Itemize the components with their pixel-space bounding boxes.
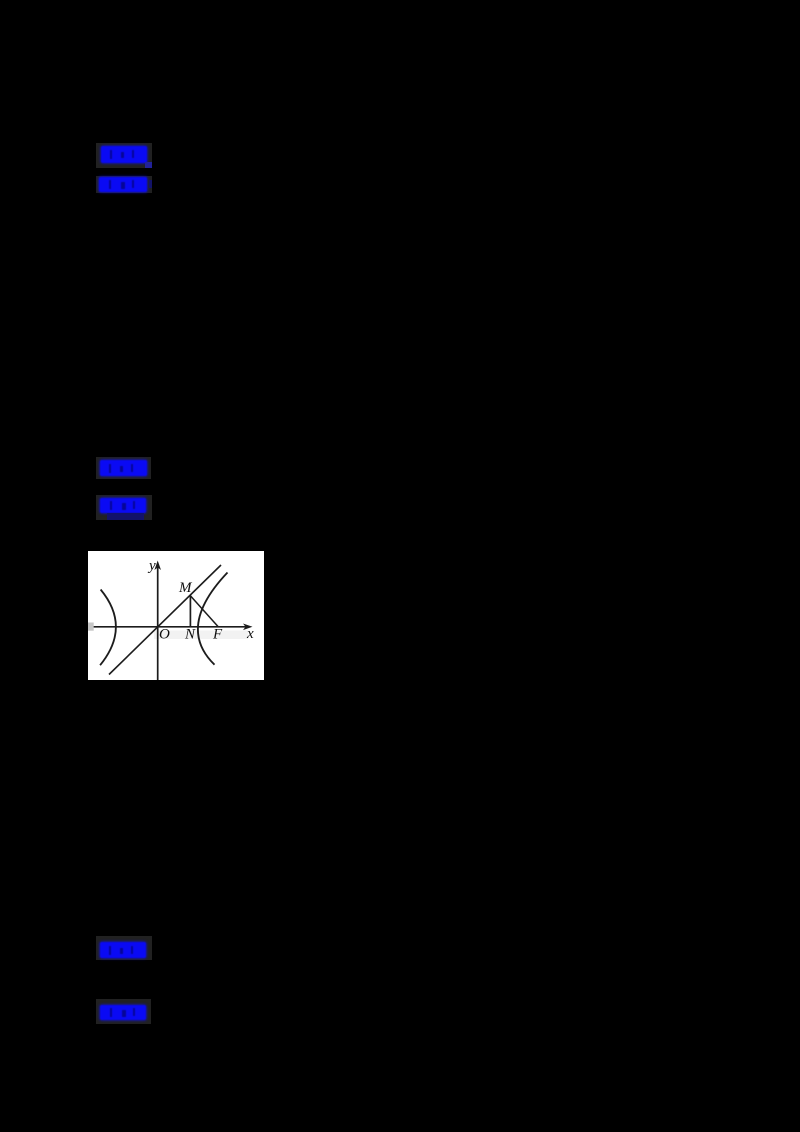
svg-text:F: F bbox=[212, 627, 223, 643]
hyperbola left branch bbox=[100, 590, 116, 666]
highlight label 1 selection box bbox=[96, 143, 152, 168]
y-axis arrowhead bbox=[154, 561, 161, 571]
highlight label 6 blue text bbox=[100, 1005, 146, 1020]
svg-text:x: x bbox=[246, 626, 254, 642]
x-axis arrowhead bbox=[243, 624, 253, 631]
segment M N bbox=[189, 596, 191, 627]
highlight label 5 selection box bbox=[96, 936, 152, 960]
y-axis bbox=[157, 565, 159, 680]
highlight label 1 subscript bbox=[145, 162, 152, 168]
svg-text:O: O bbox=[159, 627, 170, 643]
selection band under axis labels bbox=[154, 631, 248, 640]
highlight label 1 blue text bbox=[101, 146, 147, 163]
highlight label 3 blue text bbox=[100, 460, 147, 476]
highlight label 5 blue text bbox=[100, 942, 146, 958]
highlight label 4 formula row bbox=[107, 513, 144, 520]
svg-text:y: y bbox=[147, 558, 156, 574]
hyperbola right branch bbox=[198, 573, 228, 665]
svg-text:M: M bbox=[178, 580, 193, 596]
svg-text:N: N bbox=[184, 627, 196, 643]
gray square on left edge bbox=[88, 623, 94, 631]
figure: hyperbola diagram bbox=[88, 551, 264, 680]
highlight label 4 selection box bbox=[96, 495, 152, 520]
highlight label 2 tail bbox=[149, 180, 152, 188]
highlight label 2 blue text bbox=[99, 177, 147, 192]
segment M F bbox=[190, 596, 218, 627]
asymptote line through O bbox=[109, 565, 221, 675]
x-axis bbox=[88, 626, 248, 628]
highlight label 2 selection box bbox=[96, 176, 152, 193]
highlight label 3 selection box bbox=[96, 457, 151, 479]
highlight label 6 selection box bbox=[96, 999, 151, 1024]
figure white background bbox=[88, 551, 264, 680]
highlight label 4 blue text bbox=[100, 498, 146, 513]
